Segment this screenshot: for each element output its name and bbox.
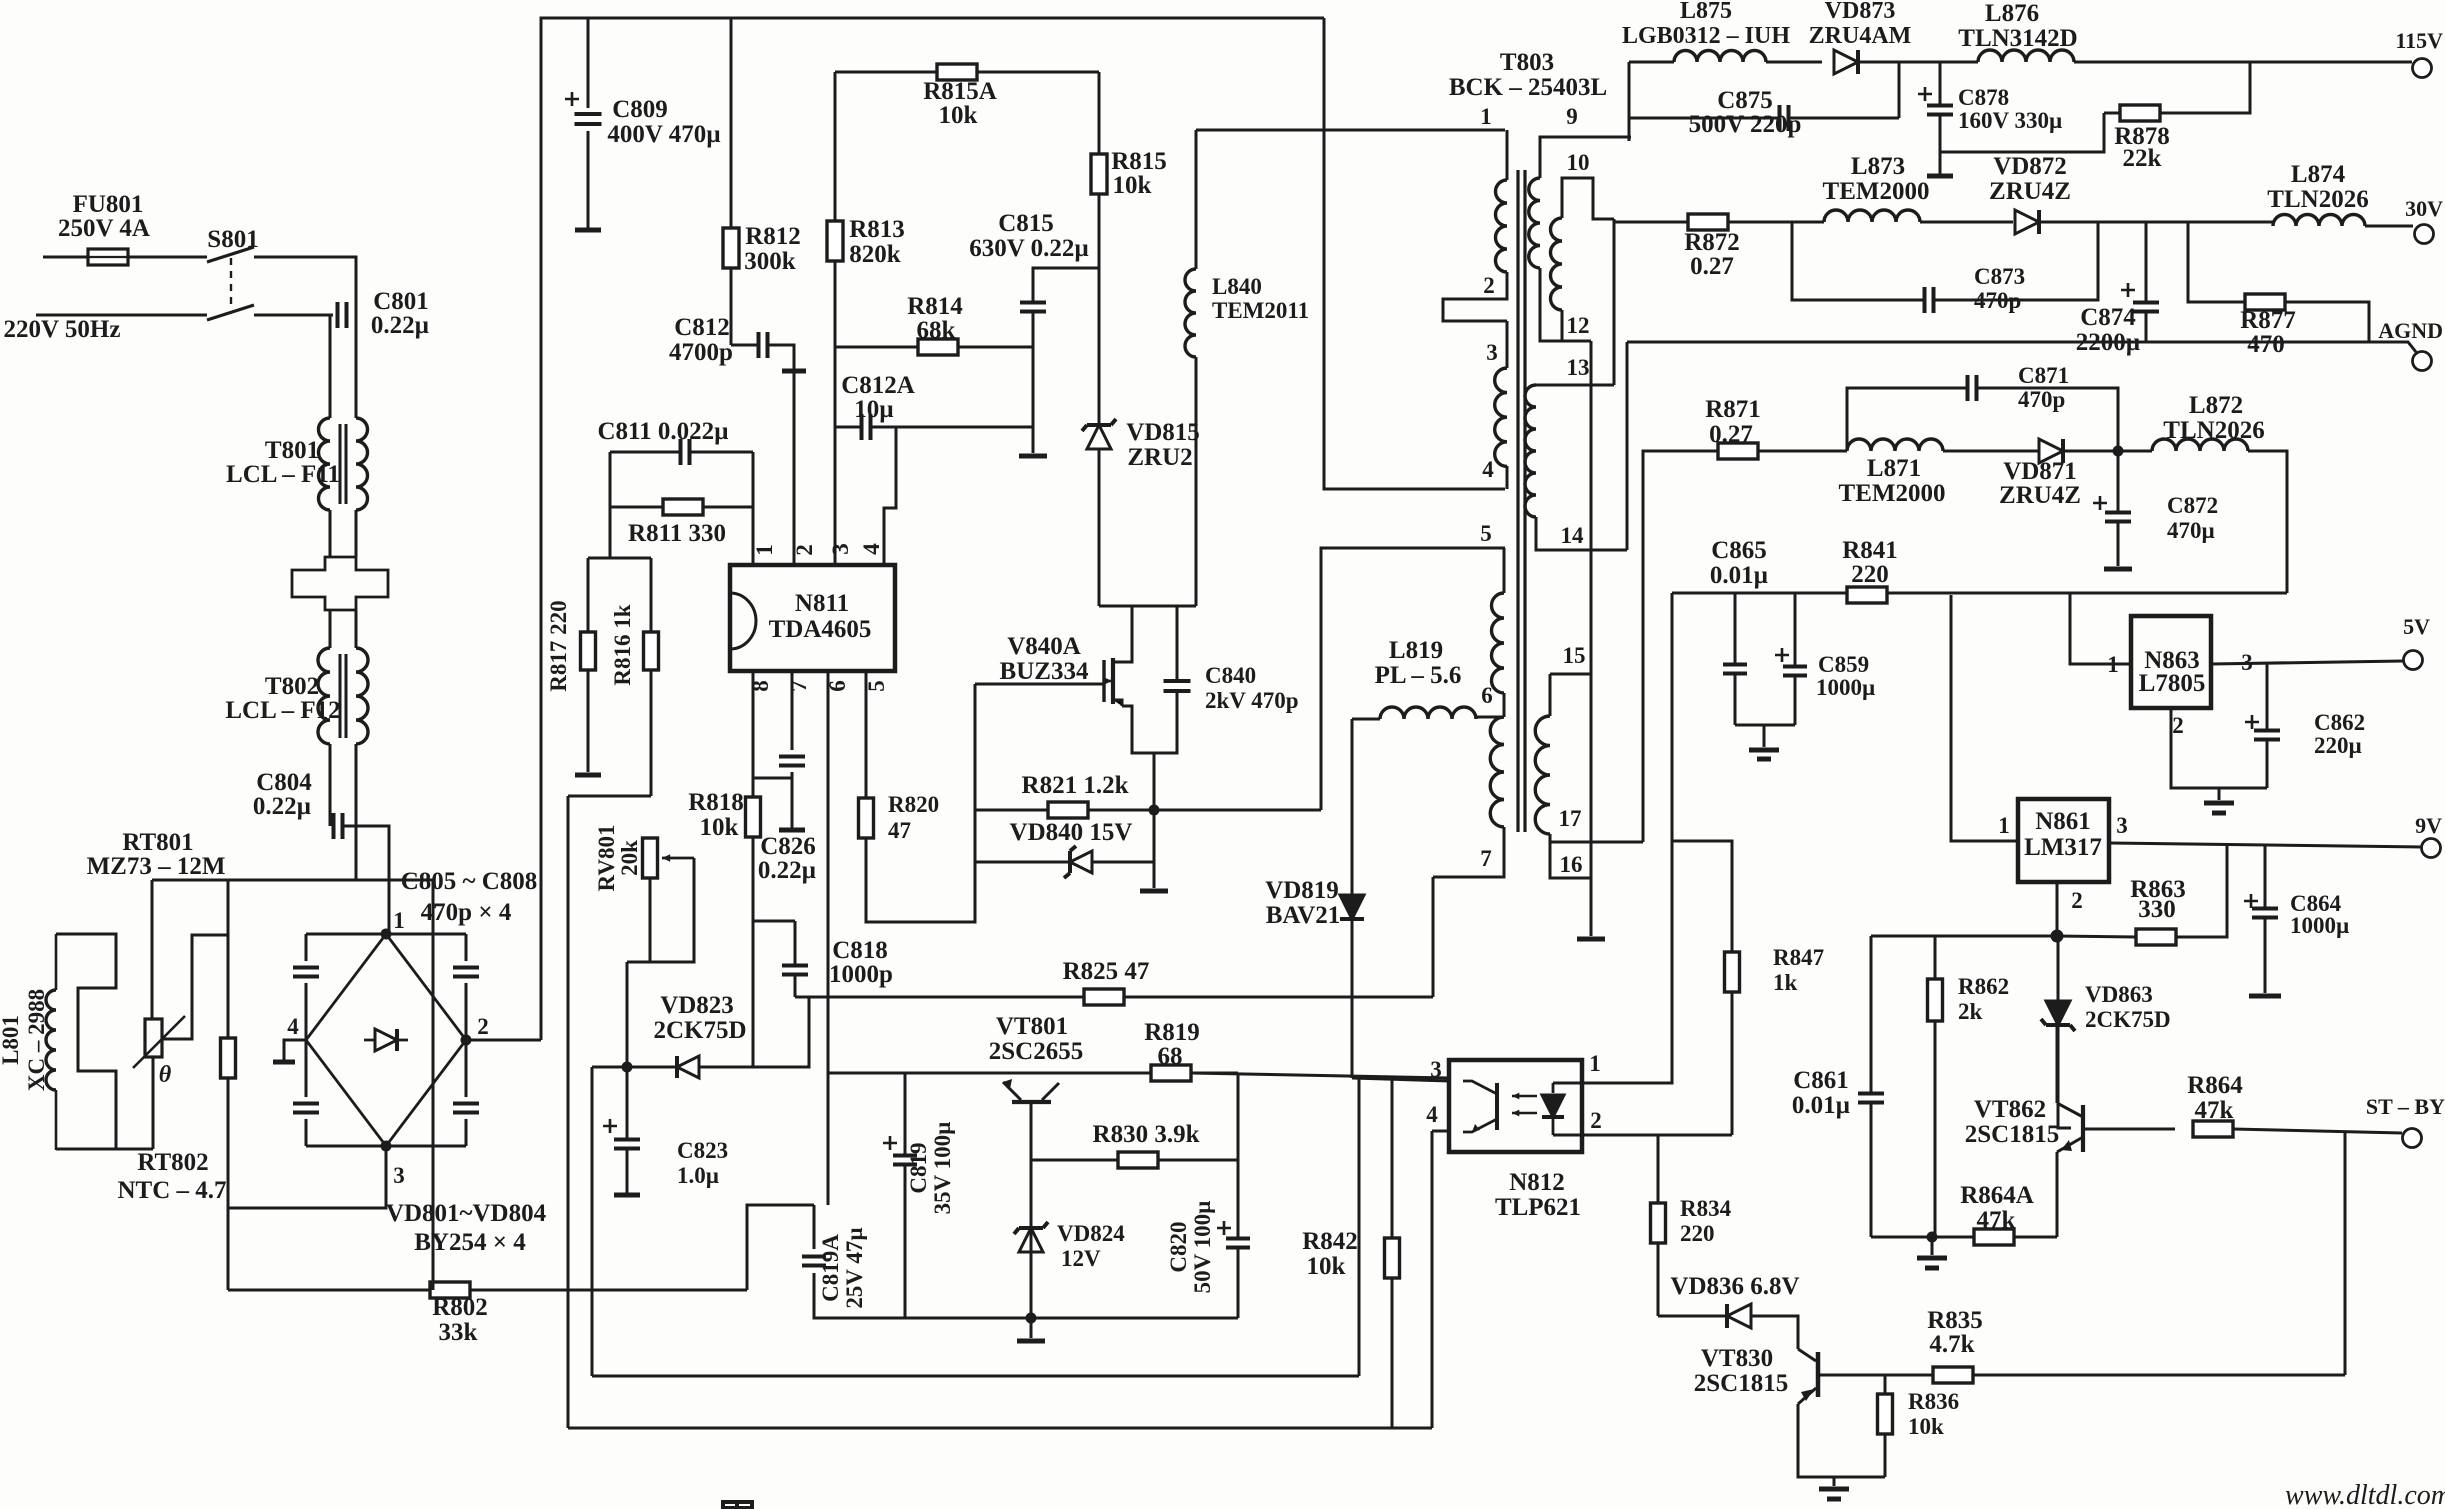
wire RT row right drop	[432, 880, 435, 1290]
svg-text:R812: R812	[745, 223, 801, 250]
svg-text:T801: T801	[265, 437, 319, 464]
junction C875 riser	[1898, 62, 1901, 118]
svg-text:TLN2026: TLN2026	[2163, 417, 2264, 444]
svg-text:NTC – 4.7: NTC – 4.7	[117, 1177, 226, 1204]
terminal AGND	[2413, 352, 2432, 371]
diode VD863 (zener)	[2046, 1001, 2070, 1025]
svg-text:4700p: 4700p	[669, 339, 733, 366]
N812 LED internal wires	[1553, 1082, 1582, 1085]
caption fragment	[723, 1502, 752, 1509]
svg-text:13: 13	[1567, 355, 1590, 380]
resistor R812	[723, 228, 739, 268]
svg-text:2: 2	[2172, 713, 2184, 738]
capacitor C864 (electrolytic)	[2252, 909, 2278, 918]
svg-text:C874: C874	[2080, 304, 2136, 331]
wire C826 bottom bar	[791, 772, 794, 828]
svg-text:4: 4	[287, 1014, 299, 1039]
wire VD823 node to bus1	[591, 1067, 594, 1376]
T803 pin17 wire	[1550, 834, 1643, 842]
resistor R841	[1847, 587, 1887, 603]
bridge rectifier diamond VD801-VD804	[306, 934, 466, 1146]
wire 30V rail d	[2365, 225, 2413, 228]
wire 115V rail c	[2074, 61, 2412, 64]
resistor R815	[1091, 154, 1107, 194]
ground below VT801 row	[1017, 1339, 1045, 1344]
capacitor C820 (electrolytic)	[1226, 1239, 1250, 1248]
wire R878 row	[2104, 112, 2120, 115]
svg-text:0.22µ: 0.22µ	[253, 793, 311, 820]
resistor R864	[2193, 1121, 2233, 1137]
svg-text:C819: C819	[906, 1142, 931, 1193]
wire pin1 stub	[752, 452, 755, 565]
svg-text:TEM2011: TEM2011	[1212, 298, 1309, 323]
node 2 dot	[461, 1035, 472, 1046]
wire R816 bottom to RV801 rail	[650, 670, 653, 796]
svg-text:9: 9	[1566, 104, 1578, 129]
svg-text:VD872: VD872	[1993, 153, 2067, 180]
resistor R819	[1151, 1065, 1191, 1081]
resistor R836	[1878, 1394, 1893, 1434]
svg-text:7: 7	[1480, 846, 1492, 871]
svg-text:5: 5	[864, 680, 889, 692]
T803 primary winding 3-4	[1495, 368, 1507, 466]
bar below C823	[614, 1193, 640, 1198]
wire VD840 row	[975, 861, 1070, 864]
svg-text:1000µ: 1000µ	[1816, 675, 1875, 700]
bus wire lower 2	[568, 1427, 1432, 1430]
svg-text:47k: 47k	[2195, 1097, 2234, 1124]
bridge outer right upper	[465, 934, 468, 961]
svg-text:R814: R814	[907, 293, 963, 320]
svg-text:LCL – F11: LCL – F11	[226, 461, 340, 488]
inductor L840	[1185, 269, 1196, 357]
svg-text:C818: C818	[832, 937, 888, 964]
junction dot R821 node	[1149, 805, 1160, 816]
svg-text:L875: L875	[1680, 0, 1732, 24]
transformer T801 right winding	[356, 418, 368, 510]
wire R817 bottom to ground	[587, 670, 590, 772]
ground below R864A row	[1917, 1256, 1947, 1261]
svg-text:33k: 33k	[439, 1319, 478, 1346]
wire C809 to ground	[587, 131, 590, 228]
T803 pin14 wire	[1536, 517, 1627, 550]
svg-text:630V 0.22µ: 630V 0.22µ	[969, 235, 1089, 262]
capacitor C805	[293, 968, 319, 977]
wire R821 row	[975, 809, 1048, 812]
wire R812 top	[730, 18, 733, 228]
degauss loop bracket	[56, 934, 116, 1150]
svg-text:4.7k: 4.7k	[1929, 1331, 1974, 1358]
capacitor C861	[1858, 1094, 1884, 1103]
wire L840 bottom	[1195, 357, 1198, 606]
svg-text:N812: N812	[1509, 1169, 1565, 1196]
svg-text:9V: 9V	[2415, 813, 2442, 838]
optocoupler N812 TLP621 box	[1449, 1060, 1582, 1152]
svg-text:35V 100µ: 35V 100µ	[930, 1122, 955, 1215]
svg-text:RT801: RT801	[122, 829, 193, 856]
wire R864A ground stem	[1931, 1237, 1934, 1255]
svg-text:R830 3.9k: R830 3.9k	[1093, 1121, 1200, 1148]
wire R820 bottom U	[866, 684, 975, 922]
svg-text:TLP621: TLP621	[1495, 1194, 1581, 1221]
wire pin8 drop	[753, 671, 795, 921]
wire C862 riser	[2266, 662, 2269, 730]
wire 30V rail c	[2039, 221, 2273, 224]
ground below C878	[1927, 174, 1953, 179]
wire R864 to ST-BY	[2233, 1129, 2402, 1133]
wire R811 row	[610, 506, 663, 509]
svg-text:C804: C804	[256, 769, 312, 796]
transistor VT830 2SC1815	[1816, 1352, 1821, 1397]
svg-text:2: 2	[1483, 273, 1495, 298]
capacitor C878 (electrolytic)	[1927, 106, 1953, 115]
svg-text:BY254 × 4: BY254 × 4	[414, 1229, 526, 1256]
wire N861 pin2 stub	[2056, 883, 2059, 936]
svg-text:N861: N861	[2035, 808, 2091, 835]
wire C823 bottom	[626, 1067, 629, 1139]
wire VD823 link up	[753, 997, 809, 1067]
T803 pin4 stub	[1506, 466, 1509, 489]
capacitor C862 (electrolytic)	[2254, 731, 2280, 740]
svg-text:4: 4	[859, 543, 884, 555]
diode VD824 (zener)	[1019, 1228, 1043, 1252]
T803 secondary winding 9-10	[1529, 178, 1540, 268]
resistor R814	[918, 339, 958, 355]
wire pin10 drop	[1613, 219, 1616, 385]
svg-text:FU801: FU801	[73, 191, 144, 218]
wire pin7 drop	[791, 671, 794, 750]
svg-text:10k: 10k	[1908, 1414, 1944, 1439]
svg-text:R813: R813	[849, 216, 905, 243]
bar below C826	[779, 828, 805, 833]
svg-text:C820: C820	[1166, 1221, 1191, 1272]
wire C862 ground stem	[2218, 788, 2221, 800]
voltage regulator N861 LM317 box	[2018, 799, 2109, 882]
wire pin5 drop	[865, 671, 868, 798]
wire ST-BY riser	[2344, 1131, 2347, 1375]
T803 winding 10-12	[1551, 218, 1562, 310]
transformer T801 left winding	[319, 418, 331, 510]
wire R814 row	[835, 346, 918, 349]
wire R864A row	[1871, 1236, 1974, 1239]
wire degauss bottom	[56, 1148, 153, 1151]
transistor V840A BUZ334 (MOSFET)	[1102, 660, 1105, 702]
svg-text:1.0µ: 1.0µ	[677, 1163, 719, 1188]
capacitor C865	[1723, 665, 1747, 674]
svg-text:250V 4A: 250V 4A	[58, 215, 150, 242]
resistor R813	[827, 221, 843, 261]
capacitor C826	[779, 757, 805, 766]
ground below VT830	[1819, 1487, 1849, 1492]
ground at bridge node 4	[284, 1040, 306, 1060]
wire 30V rail a	[1614, 221, 1688, 224]
wire R863 row	[2057, 936, 2136, 937]
wire 115V rail b	[1858, 61, 1978, 64]
svg-text:ST – BY: ST – BY	[2366, 1094, 2445, 1119]
wire switch upper to line R	[330, 257, 356, 315]
capacitor C872 (electrolytic)	[2105, 513, 2131, 522]
bridge outer left mid	[305, 983, 308, 1097]
wire R815A row	[835, 71, 937, 74]
wire VT830 emitter	[1798, 1404, 1885, 1477]
svg-text:VD840 15V: VD840 15V	[1010, 819, 1133, 846]
wire T802 left down to C804	[329, 744, 332, 826]
wire VD863 line	[2057, 936, 2060, 1001]
svg-text:2SC2655: 2SC2655	[989, 1038, 1083, 1065]
svg-text:1: 1	[1589, 1051, 1601, 1076]
wire C873 row	[1792, 222, 1924, 300]
svg-text:T803: T803	[1500, 49, 1554, 76]
ground below C865 C859	[1749, 748, 1779, 753]
wire C878 riser	[1939, 62, 1942, 105]
wire gate row	[975, 683, 1104, 686]
svg-text:C871: C871	[2018, 363, 2069, 388]
junction dot ADJ node	[2051, 930, 2064, 943]
svg-text:2SC1815: 2SC1815	[1694, 1370, 1788, 1397]
wire ADJ row left	[1871, 935, 2057, 938]
wire R818 drop	[752, 837, 755, 1067]
svg-text:BCK – 25403L: BCK – 25403L	[1449, 74, 1607, 101]
wire VT862 collector	[2056, 1025, 2059, 1103]
wire R813 bottom to pin3	[834, 261, 837, 565]
AC line input upper wire	[43, 256, 88, 259]
svg-text:4: 4	[1482, 457, 1494, 482]
svg-text:L7805: L7805	[2139, 670, 2206, 697]
svg-text:2: 2	[2071, 888, 2083, 913]
bridge outer right mid	[465, 983, 468, 1097]
wire C871 row	[1847, 388, 1967, 451]
capacitor C801	[338, 302, 347, 328]
T803 pin5 stub	[1503, 548, 1506, 593]
bridge outer frame top	[306, 933, 466, 936]
capacitor C815	[1020, 303, 1046, 312]
wire RV801 top rail	[568, 795, 651, 798]
inductor L872	[2152, 439, 2248, 451]
svg-text:0.22µ: 0.22µ	[758, 857, 816, 884]
svg-text:VT862: VT862	[1974, 1096, 2046, 1123]
svg-text:1: 1	[1480, 104, 1492, 129]
diode VD871	[2039, 439, 2063, 463]
svg-text:3: 3	[2116, 813, 2128, 838]
wire R871 to L871	[1758, 450, 1847, 453]
resistor R864A	[1974, 1229, 2014, 1245]
svg-text:V840A: V840A	[1007, 633, 1081, 660]
wire pin6 drop long	[827, 671, 830, 1073]
svg-text:RT802: RT802	[137, 1149, 208, 1176]
svg-text:VT830: VT830	[1701, 1345, 1773, 1372]
svg-text:0.01µ: 0.01µ	[1710, 562, 1768, 589]
diode VD836	[1727, 1304, 1751, 1328]
wire C812A end bar	[1032, 427, 1035, 453]
svg-text:R864: R864	[2187, 1072, 2243, 1099]
wire R825 row	[795, 996, 1084, 999]
switch S801 link (dashed)	[230, 258, 232, 310]
svg-text:C878: C878	[1958, 85, 2009, 110]
svg-text:10k: 10k	[700, 814, 739, 841]
wire L872 out	[2248, 451, 2287, 593]
T803 pin1 stub	[1506, 130, 1509, 180]
svg-text:C805 ~ C808: C805 ~ C808	[401, 868, 538, 895]
svg-text:AGND: AGND	[2378, 318, 2443, 343]
svg-text:300k: 300k	[744, 248, 796, 275]
wire R836 line	[1884, 1375, 1887, 1394]
wire RT row	[152, 879, 433, 882]
wire snubber bottom bar	[1099, 605, 1196, 608]
junction dot R864A row	[1927, 1232, 1938, 1243]
svg-text:R835: R835	[1927, 1307, 1983, 1334]
wire VT862 base row	[2083, 1128, 2175, 1131]
svg-text:TDA4605: TDA4605	[769, 616, 872, 643]
svg-text:50V 100µ: 50V 100µ	[1190, 1201, 1215, 1294]
svg-text:330: 330	[2138, 896, 2176, 923]
svg-text:2k: 2k	[1958, 999, 1983, 1024]
svg-text:R864A: R864A	[1960, 1182, 2034, 1209]
svg-text:30V: 30V	[2405, 196, 2443, 221]
wire LM317 feed riser	[1951, 595, 2016, 841]
capacitor C859 (electrolytic)	[1783, 667, 1807, 676]
wire C804 to bridge node1	[343, 826, 389, 934]
svg-text:14: 14	[1561, 523, 1585, 548]
svg-text:R819: R819	[1144, 1019, 1200, 1046]
capacitor C812	[759, 332, 768, 358]
svg-text:C861: C861	[1793, 1067, 1849, 1094]
svg-text:2kV 470p: 2kV 470p	[1205, 688, 1299, 713]
wire node2 to HV rail	[466, 1039, 541, 1042]
bridge diode symbol	[375, 1029, 397, 1051]
T803 pin9 stub	[1540, 137, 1631, 178]
capacitor C874 (electrolytic)	[2133, 303, 2159, 312]
switch S801 lower pole	[207, 305, 254, 320]
svg-text:1k: 1k	[1773, 970, 1798, 995]
svg-text:C812: C812	[674, 314, 730, 341]
wire VT801 bottom row	[814, 1317, 1238, 1320]
svg-text:XC – 2988: XC – 2988	[24, 989, 49, 1091]
potentiometer RV801	[643, 838, 658, 878]
wire C865 row	[1672, 592, 2287, 595]
terminal 115V	[2413, 59, 2432, 78]
svg-text:R815A: R815A	[923, 78, 997, 105]
svg-text:2: 2	[477, 1014, 489, 1039]
wire node3 down	[228, 1146, 386, 1208]
wire C815 top	[1033, 268, 1099, 302]
svg-text:470: 470	[2247, 331, 2285, 358]
svg-text:PL – 5.6: PL – 5.6	[1375, 662, 1462, 689]
node 1 dot	[381, 929, 392, 940]
svg-text:68: 68	[1158, 1043, 1183, 1070]
wire R816 R817 top rail	[588, 557, 651, 560]
ground below pin16	[1577, 937, 1605, 942]
svg-text:RV801: RV801	[594, 825, 619, 892]
wire VD819 line	[1351, 719, 1354, 895]
wire N863 pin2	[2171, 708, 2267, 788]
capacitor C806	[453, 968, 479, 977]
wire N861 pin3 to 9V	[2110, 843, 2421, 847]
wire emitter ground stem	[1833, 1477, 1836, 1486]
terminal 9V	[2422, 839, 2441, 858]
svg-text:2CK75D: 2CK75D	[653, 1017, 746, 1044]
resistor R815A	[937, 64, 977, 80]
resistor R862	[1928, 979, 1943, 1021]
svg-text:2CK75D: 2CK75D	[2085, 1007, 2171, 1032]
T803 primary winding 1-2	[1496, 180, 1507, 272]
capacitor C808	[453, 1104, 479, 1113]
T803 pin12 wire	[1562, 310, 1591, 341]
svg-text:R862: R862	[1958, 974, 2009, 999]
svg-text:www.dltdl.com: www.dltdl.com	[2285, 1480, 2445, 1509]
bar on pin2 drop	[782, 369, 806, 374]
diode VD819	[1340, 895, 1364, 919]
svg-text:VD801~VD804: VD801~VD804	[386, 1200, 547, 1227]
wire T801 to core symbol	[329, 510, 332, 557]
switch S801 upper pole	[207, 247, 254, 262]
svg-text:R818: R818	[688, 789, 744, 816]
T803 winding 2-3 stub	[1506, 321, 1509, 368]
wire pin6 drop elbow	[827, 1073, 830, 1205]
wire L819 left	[1352, 718, 1380, 721]
wire R802 to C819A riser	[747, 1205, 814, 1290]
svg-text:S801: S801	[207, 226, 258, 253]
svg-text:ZRU2: ZRU2	[1127, 444, 1192, 471]
resistor R863	[2136, 929, 2176, 945]
svg-text:VT801: VT801	[996, 1013, 1068, 1040]
diode VD872	[2015, 210, 2039, 234]
wire R815 to C815 tee	[1098, 194, 1101, 424]
transformer T802 core	[340, 654, 346, 738]
resistor R825	[1084, 989, 1124, 1005]
svg-text:12V: 12V	[1061, 1246, 1101, 1271]
wire C815 node down	[1032, 347, 1035, 427]
svg-text:C809: C809	[612, 96, 668, 123]
svg-text:17: 17	[1559, 806, 1582, 831]
svg-text:VD823: VD823	[660, 992, 734, 1019]
svg-text:VD819: VD819	[1265, 877, 1339, 904]
bridge outer frame bottom	[306, 1145, 466, 1148]
wire pin9 riser	[1628, 62, 1631, 141]
svg-text:L819: L819	[1389, 637, 1443, 664]
fuse FU801	[88, 249, 128, 265]
svg-text:15: 15	[1563, 643, 1586, 668]
wire C864 riser	[2264, 846, 2267, 908]
wire RT801 branch	[151, 880, 154, 1019]
wire C818 to R825 row	[794, 921, 797, 965]
svg-text:VD863: VD863	[2085, 982, 2153, 1007]
voltage regulator N863 L7805 box	[2131, 616, 2211, 708]
wire C865 riser	[1734, 593, 1737, 663]
bus wire lower 1	[592, 1375, 1359, 1378]
inductor L873	[1824, 210, 1920, 222]
svg-text:16: 16	[1560, 852, 1583, 877]
wire R821 right riser to pin5	[1321, 548, 1505, 810]
svg-text:400V 470µ: 400V 470µ	[607, 121, 720, 148]
svg-text:LGB0312 – IUH: LGB0312 – IUH	[1622, 23, 1790, 49]
wire C840 riser	[1176, 606, 1179, 681]
svg-text:ZRU4Z: ZRU4Z	[1989, 178, 2071, 205]
transistor VT862 2SC1815	[2081, 1105, 2085, 1152]
svg-text:TLN2026: TLN2026	[2267, 186, 2368, 213]
svg-text:500V 220p: 500V 220p	[1689, 111, 1802, 138]
junction dot bottom row	[1026, 1313, 1037, 1324]
wire R877 links	[2188, 222, 2245, 302]
svg-text:20k: 20k	[617, 840, 642, 876]
svg-text:2: 2	[792, 544, 817, 556]
wire pin13 to pin10 drop join	[1612, 384, 1614, 387]
svg-text:3: 3	[828, 543, 853, 555]
wire pin17 riser	[1643, 451, 1718, 842]
line filter core (cross symbol)	[292, 557, 388, 610]
wire C819A to bottom row	[813, 1205, 816, 1249]
wire R816 top	[650, 558, 653, 632]
svg-text:VD836 6.8V: VD836 6.8V	[1670, 1273, 1799, 1300]
